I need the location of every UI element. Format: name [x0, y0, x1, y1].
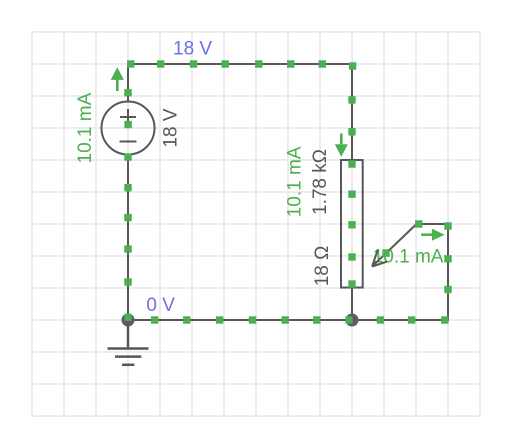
wire right branch horizontal stub: (448,224)-(417,224) — [417, 223, 449, 225]
wire top net 18V: (128,64)-(352,64) — [128, 63, 352, 65]
current dots on bottom-right wire — [377, 316, 384, 323]
current dot on node B — [345, 316, 352, 323]
wire V1 bottom lead to ground node: (128,155)-(128,320) — [127, 155, 129, 321]
current dots on right branch — [444, 286, 451, 293]
ground — [108, 322, 149, 365]
current dots on bottom wire — [151, 316, 158, 323]
svg-text:10.1 mA: 10.1 mA — [75, 92, 96, 163]
current dots through R1 — [348, 160, 355, 167]
svg-text:18 V: 18 V — [161, 108, 182, 147]
current dots on top wire — [127, 60, 134, 67]
wire V1 top lead: (128,64)-(128,101) — [127, 63, 129, 101]
probe leader arrowhead — [372, 250, 387, 267]
svg-text:18 Ω: 18 Ω — [312, 246, 333, 287]
current dot at stub corner — [415, 220, 422, 227]
current direction arrow (up) at V1 — [111, 67, 124, 91]
svg-text:18 V: 18 V — [173, 39, 212, 60]
junction node A (ground node, 128,320) — [122, 314, 135, 327]
svg-text:1.78 kΩ: 1.78 kΩ — [310, 149, 331, 215]
current dot on node A — [124, 314, 131, 321]
current dot on leader diagonal — [382, 249, 389, 256]
wire right branch vertical: (448,320)-(448,224) — [447, 224, 449, 321]
current dot at top-right corner — [349, 62, 356, 69]
wire R1 top lead: (352,64)-(352,161) — [351, 64, 353, 161]
junction node B (352,320) — [346, 314, 359, 327]
svg-text:10.1 mA: 10.1 mA — [284, 146, 305, 217]
V1 plus polarity mark — [120, 109, 136, 125]
probe leader line (diagonal) — [372, 224, 417, 267]
voltage source V1 (circle) — [102, 102, 155, 155]
V1 minus polarity mark — [120, 141, 137, 143]
current dots on R1 top lead — [348, 96, 355, 103]
current direction arrow (down) into R1 — [335, 134, 348, 157]
wire bottom net 0V: (128,320)-(448,320) — [128, 319, 448, 321]
current dots on left branch — [124, 89, 131, 96]
svg-text:0 V: 0 V — [146, 295, 175, 316]
wire R1 bottom lead: (352,287)-(352,320) — [351, 287, 353, 320]
resistor R1 (box symbol) — [341, 160, 363, 288]
current direction arrow (right) at probe — [421, 229, 445, 241]
